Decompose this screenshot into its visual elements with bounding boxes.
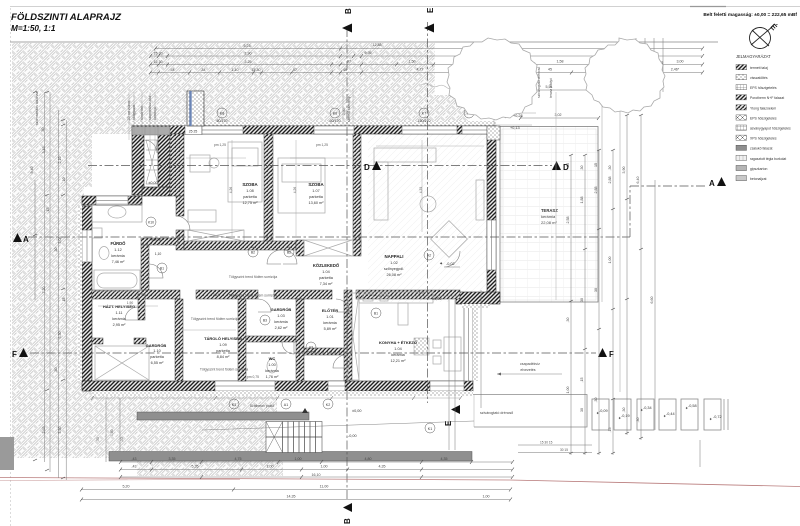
svg-text:60/170: 60/170 <box>217 119 228 123</box>
driveway bar 1 <box>137 412 309 420</box>
porch slab gray <box>132 127 170 136</box>
svg-text:30 15: 30 15 <box>560 448 568 452</box>
label wc <box>265 356 279 379</box>
svg-text:1,00: 1,00 <box>483 495 490 499</box>
svg-text:8,84 m²: 8,84 m² <box>217 355 231 359</box>
legend <box>736 54 791 181</box>
west step wall upper jog <box>142 187 170 196</box>
svg-text:1,00: 1,00 <box>295 457 302 461</box>
svg-text:2,46*: 2,46* <box>671 68 680 72</box>
svg-text:parketta: parketta <box>243 195 258 199</box>
door házt <box>125 307 138 320</box>
planter squares row <box>592 399 728 430</box>
svg-text:6,40: 6,40 <box>636 177 640 184</box>
svg-text:22,08 m²: 22,08 m² <box>541 220 557 225</box>
svg-text:2,51: 2,51 <box>213 293 220 297</box>
svg-text:EPS hőszigetelés: EPS hőszigetelés <box>750 116 777 120</box>
svg-text:3,08: 3,08 <box>58 237 62 244</box>
svg-text:ásványgyapot hőszigetelés: ásványgyapot hőszigetelés <box>750 127 791 131</box>
svg-text:KÖZLEKEDŐ: KÖZLEKEDŐ <box>313 263 340 268</box>
svg-text:NAPPALI: NAPPALI <box>385 254 404 259</box>
svg-text:-0,72: -0,72 <box>713 415 722 419</box>
svg-text:3,02: 3,02 <box>555 113 562 117</box>
svg-text:,30: ,30 <box>580 166 584 171</box>
svg-text:1,10: 1,10 <box>232 68 239 72</box>
svg-text:,30: ,30 <box>54 248 58 253</box>
svg-text:B1: B1 <box>160 267 164 271</box>
svg-text:3,00: 3,00 <box>677 60 684 64</box>
marker D right <box>552 161 561 170</box>
svg-text:5,89 m²: 5,89 m² <box>324 327 338 331</box>
svg-text:parketta: parketta <box>216 349 231 353</box>
svg-text:+0,13: +0,13 <box>510 126 520 130</box>
svg-text:1.10: 1.10 <box>153 349 160 353</box>
svg-text:5,25: 5,25 <box>245 60 252 64</box>
svg-text:45: 45 <box>343 68 347 72</box>
svg-text:-0,58: -0,58 <box>688 404 697 408</box>
section line D-D <box>88 165 552 167</box>
compass <box>750 22 780 48</box>
label szoba1 <box>242 182 258 205</box>
gardrob/wc wall <box>246 336 296 342</box>
svg-text:kerámia: kerámia <box>323 321 337 325</box>
svg-text:K1: K1 <box>428 427 432 431</box>
corridor wall north <box>184 241 296 250</box>
svg-text:25 25: 25 25 <box>189 130 198 134</box>
door wc <box>282 342 294 354</box>
window N2 <box>314 126 354 134</box>
left dimension chains <box>35 92 66 480</box>
label közlekedő <box>313 263 340 286</box>
red boundary line <box>0 478 800 487</box>
dining table <box>444 337 461 371</box>
svg-text:4,35: 4,35 <box>379 465 386 469</box>
svg-text:30: 30 <box>580 408 584 412</box>
lower v wall 4 <box>344 290 352 381</box>
svg-text:D: D <box>364 163 370 172</box>
svg-text:JELMAGYARÁZAT: JELMAGYARÁZAT <box>736 54 771 59</box>
door közlekedő-elöter <box>336 299 349 312</box>
svg-text:-0,34: -0,34 <box>643 406 652 410</box>
svg-text:45: 45 <box>548 68 552 72</box>
west wall <box>82 206 92 381</box>
svg-text:2,88: 2,88 <box>608 177 612 184</box>
interior small circles <box>146 217 434 352</box>
property boundary lines right <box>602 58 620 392</box>
svg-text:4,26: 4,26 <box>293 187 297 194</box>
svg-text:1.08: 1.08 <box>246 189 253 193</box>
legend 12 <box>736 176 747 181</box>
svg-text:M=1:50, 1:1: M=1:50, 1:1 <box>11 24 56 33</box>
label gardrob alsó <box>146 343 167 365</box>
lower v wall 2 <box>238 299 246 381</box>
svg-text:-0,00: -0,00 <box>348 434 357 438</box>
kitchen window wall east <box>464 307 473 381</box>
gardrob wardrobe <box>95 346 149 380</box>
svg-text:pm 1,25: pm 1,25 <box>214 143 226 147</box>
svg-text:15 30 15: 15 30 15 <box>540 441 553 445</box>
top dim labels <box>154 43 684 72</box>
svg-text:6,60: 6,60 <box>650 297 654 304</box>
svg-text:terasz lefolyó: terasz lefolyó <box>549 78 553 98</box>
svg-text:2,65: 2,65 <box>42 427 46 434</box>
svg-text:15 30: 15 30 <box>154 52 163 56</box>
window east wall <box>487 220 496 270</box>
svg-text:,15: ,15 <box>46 208 50 213</box>
label házt helyiség <box>103 304 135 327</box>
interior dim lines <box>98 140 484 330</box>
svg-text:Porotherm N+F falazat: Porotherm N+F falazat <box>750 96 784 100</box>
EPS strip kitchen window <box>473 308 478 381</box>
svg-text:K8: K8 <box>333 112 337 116</box>
svg-text:67: 67 <box>347 60 351 64</box>
svg-text:2,88: 2,88 <box>594 187 598 194</box>
svg-text:kerámia: kerámia <box>391 353 405 357</box>
door fürdő <box>149 264 163 278</box>
legend 3 <box>736 85 747 90</box>
stove <box>414 338 429 355</box>
svg-text:1.07: 1.07 <box>312 189 319 193</box>
svg-text:3,35: 3,35 <box>169 457 176 461</box>
svg-text:60/170: 60/170 <box>330 119 341 123</box>
dark block bottom-left <box>0 437 14 470</box>
svg-text:1,00: 1,00 <box>267 465 274 469</box>
exterior stairs <box>266 408 322 453</box>
fürdő counter <box>92 204 142 222</box>
south wall openings <box>215 381 464 391</box>
svg-text:4,35: 4,35 <box>441 457 448 461</box>
svg-text:kerámia: kerámia <box>111 254 125 258</box>
svg-text:2,58: 2,58 <box>566 217 570 224</box>
svg-text:±0,00: ±0,00 <box>151 238 160 242</box>
porch ramp <box>146 140 158 184</box>
terrace top dim <box>500 90 602 118</box>
svg-text:3,30: 3,30 <box>58 427 62 434</box>
svg-text:2,10: 2,10 <box>58 157 62 164</box>
svg-text:szomszédos lakóház: szomszédos lakóház <box>35 91 39 125</box>
svg-text:4,35: 4,35 <box>419 187 423 194</box>
window N1 <box>202 126 243 134</box>
svg-text:±0,00: ±0,00 <box>352 409 361 413</box>
porch west wall <box>132 134 144 195</box>
svg-text:5,20: 5,20 <box>123 485 130 489</box>
svg-text:1.12: 1.12 <box>114 248 121 252</box>
bottom dimension chains <box>81 462 512 500</box>
svg-text:5,23: 5,23 <box>244 44 251 48</box>
legend 6 <box>736 115 747 120</box>
svg-text:szivárogtató dréncső: szivárogtató dréncső <box>537 67 541 98</box>
window west wall <box>82 230 92 262</box>
EPS strip west <box>78 206 83 381</box>
svg-text:4,80: 4,80 <box>365 457 372 461</box>
svg-text:,15: ,15 <box>580 378 584 383</box>
lower v wall 3 <box>296 299 304 381</box>
door hall <box>176 216 190 230</box>
svg-text:F: F <box>12 350 17 359</box>
svg-text:-0,44: -0,44 <box>666 412 675 416</box>
svg-text:Tölgyszínt trend födém sorrizó: Tölgyszínt trend födém sorrizója <box>229 294 277 298</box>
faint page frame <box>10 6 800 8</box>
svg-text:15 30: 15 30 <box>154 60 163 64</box>
svg-text:Szátbeton pátkő: Szátbeton pátkő <box>250 404 275 408</box>
svg-text:Tölgyszínt trend födém sorrizó: Tölgyszínt trend födém sorrizója <box>200 368 248 372</box>
svg-text:gipszkarton: gipszkarton <box>750 167 767 171</box>
svg-text:,54: ,54 <box>170 68 175 72</box>
hall shoe cabinet <box>188 210 216 222</box>
svg-text:,30: ,30 <box>96 437 100 442</box>
svg-text:2,62 m²: 2,62 m² <box>275 326 289 330</box>
svg-text:9,95: 9,95 <box>365 51 372 55</box>
szoba1 wardrobe <box>188 230 244 241</box>
svg-text:1,76 m²: 1,76 m² <box>266 375 280 379</box>
legend 1 termett talaj <box>736 65 747 70</box>
dim line below south wall <box>92 397 460 399</box>
svg-text:KONYHA + ÉTKEZŐ: KONYHA + ÉTKEZŐ <box>379 340 417 345</box>
svg-text:-1,10: -1,10 <box>148 187 156 191</box>
label tároló <box>204 336 242 359</box>
svg-text:-0,19: -0,19 <box>621 414 630 418</box>
svg-text:SZOBA: SZOBA <box>308 182 324 187</box>
svg-text:B2: B2 <box>287 251 291 255</box>
svg-text:elvezetés: elvezetés <box>520 368 535 372</box>
svg-text:EPS hőszigetelés: EPS hőszigetelés <box>750 86 777 90</box>
label konyha <box>379 340 417 363</box>
svg-text:kerámia: kerámia <box>274 320 288 324</box>
bottom-right small dim rows <box>518 440 700 467</box>
svg-text:B3: B3 <box>263 319 267 323</box>
EPS strip north <box>132 121 496 126</box>
east wall <box>487 134 496 298</box>
svg-text:A: A <box>709 179 715 188</box>
svg-text:pm 1,25: pm 1,25 <box>316 143 328 147</box>
label nappali <box>384 254 404 277</box>
svg-text:1,50: 1,50 <box>409 60 416 64</box>
svg-text:2,90: 2,90 <box>245 52 252 56</box>
label szoba2 <box>308 182 324 205</box>
north wall <box>132 126 496 135</box>
svg-text:2,95 m²: 2,95 m² <box>113 323 127 327</box>
door szoba1 <box>267 250 281 264</box>
svg-text:,30: ,30 <box>636 418 640 423</box>
EPS strip jog <box>462 304 490 308</box>
building floor <box>92 134 487 381</box>
rotated notes top-left <box>127 96 351 122</box>
svg-text:26,08 m²: 26,08 m² <box>387 273 403 277</box>
section line B-B <box>346 28 348 500</box>
svg-text:Tölgyszínt trend födém sorrizó: Tölgyszínt trend födém sorrizója <box>191 317 239 321</box>
svg-text:,34: ,34 <box>201 68 206 72</box>
bottom small vertical dims <box>106 398 120 462</box>
legend 5 <box>736 105 747 110</box>
svg-text:12,75 m²: 12,75 m² <box>243 201 259 205</box>
svg-text:1,00: 1,00 <box>608 257 612 264</box>
svg-text:1.02: 1.02 <box>390 261 397 265</box>
svg-text:15: 15 <box>594 163 598 167</box>
svg-text:K3: K3 <box>232 403 236 407</box>
door elöter-konyha <box>333 355 346 368</box>
svg-text:4,75: 4,75 <box>235 457 242 461</box>
label elötér <box>322 308 338 331</box>
top-right small vertical dims <box>636 38 663 92</box>
svg-text:B1: B1 <box>374 312 378 316</box>
hall east wall <box>170 134 184 196</box>
svg-text:-0,02: -0,02 <box>446 262 455 266</box>
svg-text:1.00: 1.00 <box>268 363 275 367</box>
svg-text:A3: A3 <box>309 346 313 350</box>
lower v wall 1 <box>175 299 183 381</box>
pantry cabinet <box>347 293 359 380</box>
door nappali <box>444 251 460 267</box>
svg-text:,30: ,30 <box>566 318 570 323</box>
svg-text:3,90: 3,90 <box>622 167 626 174</box>
svg-text:1,00: 1,00 <box>566 387 570 394</box>
házt/gardrob wall <box>92 338 103 344</box>
door szoba2 <box>283 250 297 264</box>
west step wall <box>82 196 142 205</box>
wall szoba2/nappali <box>353 134 361 247</box>
svg-text:E: E <box>426 7 435 13</box>
legend 9 <box>736 145 747 150</box>
legend 11 <box>736 165 747 170</box>
svg-text:1.01: 1.01 <box>326 315 333 319</box>
svg-text:betonaljzat: betonaljzat <box>750 177 766 181</box>
svg-text:GARDRÓB: GARDRÓB <box>271 307 292 312</box>
door arcs <box>125 140 460 368</box>
svg-text:1,88: 1,88 <box>580 197 584 204</box>
kitchen counters <box>359 292 433 303</box>
chimney EPS block <box>187 91 204 126</box>
svg-text:szivárogtató dréncső: szivárogtató dréncső <box>480 411 513 415</box>
svg-text:1.09: 1.09 <box>219 343 226 347</box>
chimney foot white <box>185 126 202 135</box>
svg-text:,15: ,15 <box>62 298 66 303</box>
svg-text:12,88: 12,88 <box>373 43 382 47</box>
svg-text:1.04: 1.04 <box>394 347 401 351</box>
svg-text:1.11: 1.11 <box>115 311 122 315</box>
svg-text:,30: ,30 <box>41 128 45 133</box>
svg-text:1,58: 1,58 <box>557 60 564 64</box>
site crosshatch field <box>12 43 468 476</box>
legend 10 <box>736 155 747 160</box>
svg-text:1.03: 1.03 <box>277 314 284 318</box>
svg-text:TERASZ: TERASZ <box>541 208 558 213</box>
svg-text:✦: ✦ <box>439 261 443 266</box>
svg-text:150/170: 150/170 <box>418 119 431 123</box>
svg-text:1,00: 1,00 <box>321 465 328 469</box>
svg-text:,43: ,43 <box>132 465 137 469</box>
svg-text:parketta: parketta <box>309 195 324 199</box>
legend 4 <box>736 95 747 100</box>
svg-text:12,21 m²: 12,21 m² <box>391 359 407 363</box>
svg-text:kerámia: kerámia <box>541 214 556 219</box>
section line A-A <box>28 22 706 500</box>
legend 2 <box>736 75 747 80</box>
svg-text:FÖLDSZINTI ALAPRAJZ: FÖLDSZINTI ALAPRAJZ <box>11 12 122 23</box>
svg-text:,15: ,15 <box>608 428 612 433</box>
fürdő east wall upper <box>141 238 178 245</box>
planter labels <box>596 404 722 422</box>
svg-text:ELŐTÉR: ELŐTÉR <box>322 308 338 313</box>
svg-text:parketta: parketta <box>319 276 334 280</box>
svg-text:termett talaj: termett talaj <box>750 66 768 70</box>
top dimension chains <box>150 49 702 73</box>
svg-text:16,10: 16,10 <box>312 473 321 477</box>
window fürdő north <box>96 196 128 205</box>
legend 7 <box>736 125 747 130</box>
svg-text:-0,09: -0,09 <box>599 409 608 413</box>
room labels <box>103 98 536 438</box>
svg-text:,30: ,30 <box>54 368 58 373</box>
interior walls <box>92 134 460 381</box>
corridor wall south <box>92 290 180 299</box>
svg-text:SZOBA: SZOBA <box>242 182 258 187</box>
terrace <box>500 127 598 303</box>
svg-text:6,55 m²: 6,55 m² <box>151 361 165 365</box>
svg-text:1,14*: 1,14* <box>416 291 424 295</box>
south-east jog wall <box>456 292 500 304</box>
rotated labels bottom-left <box>96 429 124 442</box>
svg-text:K8: K8 <box>220 112 224 116</box>
svg-text:7,34 m²: 7,34 m² <box>320 282 334 286</box>
svg-text:4,77: 4,77 <box>417 68 424 72</box>
label gardrob felső <box>271 307 292 330</box>
window N3 <box>402 126 457 134</box>
svg-text:,30: ,30 <box>120 437 124 442</box>
elöter south wall <box>304 348 346 355</box>
szoba2 wardrobe <box>304 240 353 256</box>
svg-text:14,35: 14,35 <box>287 495 296 499</box>
svg-text:1.04: 1.04 <box>322 270 329 274</box>
házt east wall <box>138 294 145 320</box>
driveway bar 2 <box>109 452 472 462</box>
svg-text:K10: K10 <box>148 221 154 225</box>
svg-text:WC: WC <box>269 356 276 361</box>
svg-text:Tölgyszínt trend födém sorrizó: Tölgyszínt trend födém sorrizója <box>229 275 277 279</box>
svg-text:FÜRDŐ: FÜRDŐ <box>111 241 127 246</box>
svg-text:1,10: 1,10 <box>155 252 162 256</box>
porch east wall <box>158 134 170 195</box>
windows north wall <box>132 126 487 136</box>
entry door porch <box>144 140 157 153</box>
svg-text:,30: ,30 <box>622 408 626 413</box>
tree 2 <box>584 38 665 113</box>
svg-text:6,30: 6,30 <box>58 332 62 339</box>
svg-text:7,20: 7,20 <box>42 287 46 294</box>
terrace mid line <box>555 92 557 300</box>
svg-text:K7: K7 <box>422 112 426 116</box>
marker B bottom <box>343 503 352 512</box>
nappali sofa <box>374 148 436 162</box>
svg-text:30: 30 <box>594 288 598 292</box>
svg-text:9,40: 9,40 <box>30 167 34 174</box>
vertical dims right of kitchen <box>449 290 481 450</box>
svg-text:A1: A1 <box>284 403 288 407</box>
vegetation boundary <box>421 84 506 119</box>
svg-text:GARDRÓB: GARDRÓB <box>146 343 167 348</box>
svg-text:±0,00: ±0,00 <box>148 181 157 185</box>
window N4 <box>462 126 487 134</box>
svg-text:csapadékvíz: csapadékvíz <box>520 362 540 366</box>
section line F-F <box>30 352 596 354</box>
label fürdő <box>111 241 127 264</box>
svg-text:B: B <box>343 518 352 524</box>
svg-text:3,45: 3,45 <box>42 147 46 154</box>
svg-text:zsalukő falazat: zsalukő falazat <box>750 147 772 151</box>
svg-text:5,35: 5,35 <box>192 465 199 469</box>
section line E-E <box>427 22 429 403</box>
svg-text:1,40: 1,40 <box>342 108 346 115</box>
svg-text:XPS hőszigetelés: XPS hőszigetelés <box>750 137 777 141</box>
